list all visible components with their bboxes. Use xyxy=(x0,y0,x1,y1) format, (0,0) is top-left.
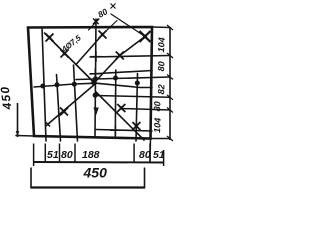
left 450 dim line xyxy=(17,103,19,137)
horizontal row r4 xyxy=(96,130,152,132)
horizontal row r1b xyxy=(90,71,152,75)
svg-text:82: 82 xyxy=(156,84,167,95)
hole star S7 xyxy=(117,104,125,112)
hole star S6 xyxy=(60,108,68,116)
cross at c3/r4 xyxy=(110,126,121,136)
cross at cC/r1 xyxy=(91,51,102,62)
hole star S5 xyxy=(116,52,124,60)
bottom border left extension xyxy=(16,135,34,138)
horizontal centre row rC xyxy=(34,83,152,87)
leader from label 80 to star S4 xyxy=(111,14,145,37)
svg-text:51: 51 xyxy=(153,149,165,161)
junction dot on cC at r3 xyxy=(93,93,98,98)
vertical centre line cC xyxy=(95,19,96,136)
small cross x near label 80 xyxy=(111,4,116,9)
right border lower extension xyxy=(149,139,152,162)
diagonal D5 bottom-right xyxy=(96,92,144,140)
hole star S2 xyxy=(61,50,69,58)
junction dot on c4 xyxy=(135,81,140,86)
hole star S3 xyxy=(99,31,107,39)
diagonal D1 top-left xyxy=(45,33,94,82)
right ladder rung r4e xyxy=(121,109,170,111)
bottom 450 dim line xyxy=(31,168,145,189)
diagonal D3 bottom-left xyxy=(48,84,96,125)
svg-text:104: 104 xyxy=(156,37,167,53)
vertical line c2 xyxy=(57,75,61,142)
vertical line c1 xyxy=(42,28,46,142)
top border right extension xyxy=(152,26,170,29)
svg-text:188: 188 xyxy=(82,149,100,161)
small x star at top of centre line xyxy=(93,19,99,25)
bottom chain ticks xyxy=(34,144,164,167)
junction dot at c2/rC xyxy=(55,82,60,87)
junction dot c3/r2 xyxy=(113,76,118,81)
right ladder rung r3 xyxy=(96,96,171,98)
hole star S8 xyxy=(132,122,140,130)
hole star S4 xyxy=(140,31,151,42)
vertical line c2b xyxy=(74,65,78,141)
svg-text:80: 80 xyxy=(139,149,151,161)
svg-text:51: 51 xyxy=(47,149,59,161)
svg-text:80: 80 xyxy=(61,149,73,161)
diagonal D4 top-right xyxy=(94,37,145,84)
junction dot at c2b/rC xyxy=(72,82,77,87)
vertical line c4 xyxy=(136,74,138,142)
junction dot at c1/rC xyxy=(40,84,45,89)
down arrow on cC xyxy=(93,108,98,116)
right ladder dim line xyxy=(169,27,171,140)
vertical line c3 xyxy=(114,70,117,136)
svg-text:104: 104 xyxy=(152,118,163,134)
svg-text:80: 80 xyxy=(156,61,167,72)
junction blob centre xyxy=(91,80,97,86)
bottom border right extension xyxy=(151,138,171,140)
hole star S1 xyxy=(46,34,54,42)
cross at cC/r1b xyxy=(90,69,101,80)
svg-text:450: 450 xyxy=(83,165,108,181)
plate outline (square 450x450) xyxy=(28,27,152,139)
left 450 dim arrow xyxy=(16,131,19,137)
svg-text:80: 80 xyxy=(152,101,163,112)
horizontal row r2 xyxy=(76,77,170,80)
junction dot cC/r2 xyxy=(93,76,98,81)
right ladder arrows/ticks xyxy=(167,25,173,141)
leader left of label 80 xyxy=(89,19,100,30)
horizontal row r1 xyxy=(90,56,170,58)
leader from label 80 to star S3 xyxy=(103,21,118,35)
diagonal D2 from star S3 xyxy=(76,35,103,65)
bottom chain dim line xyxy=(34,161,164,164)
arrow end of D3 xyxy=(46,122,51,127)
